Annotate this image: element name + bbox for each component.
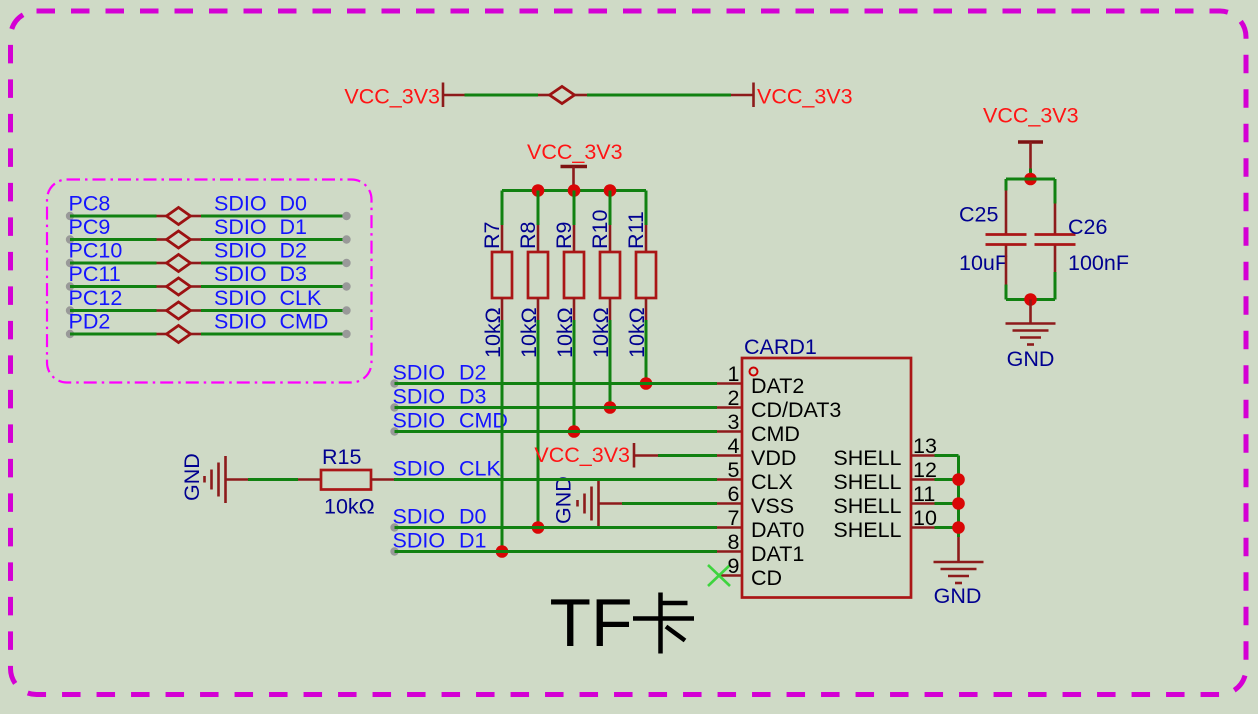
svg-text:SDIO: SDIO xyxy=(393,457,446,481)
title TF text xyxy=(550,585,633,661)
svg-text:SDIO: SDIO xyxy=(393,505,446,529)
wire C26 leg top xyxy=(1054,179,1057,234)
resistor R11 xyxy=(636,252,656,298)
svg-text:SHELL: SHELL xyxy=(833,494,901,518)
svg-text:DAT0: DAT0 xyxy=(751,518,804,542)
node PC8 label xyxy=(69,192,111,216)
svg-text:DAT1: DAT1 xyxy=(751,542,804,566)
ground GND at R15 xyxy=(205,456,249,503)
svg-text:SDIO: SDIO xyxy=(393,385,446,409)
svg-text:C25: C25 xyxy=(959,203,998,227)
svg-text:VCC_3V3: VCC_3V3 xyxy=(534,443,630,467)
node VCC_3V3 top-right label xyxy=(757,85,853,109)
ground GND caps xyxy=(1006,324,1056,345)
node SDIO D3 label xyxy=(393,385,487,409)
junction on bus at R8 xyxy=(532,184,545,197)
svg-text:D1: D1 xyxy=(459,529,486,553)
wire SDIO_D0 to pin7 xyxy=(390,523,742,531)
svg-text:CLK: CLK xyxy=(459,457,501,481)
junction R7/SDIO_D1 xyxy=(496,545,509,558)
wire C26 leg bottom xyxy=(1054,246,1057,300)
capacitor C25 xyxy=(986,235,1027,245)
pin1 marker circle xyxy=(750,368,758,376)
resistor R8 xyxy=(528,252,548,298)
inter-sheet diamond row6 xyxy=(167,326,191,343)
connector CARD1 body xyxy=(742,358,911,598)
svg-text:PC10: PC10 xyxy=(69,239,123,263)
svg-text:7: 7 xyxy=(728,506,740,530)
wire R8 bottom to SDIO_D0 xyxy=(537,298,540,528)
node SDIO CMD label xyxy=(393,409,508,433)
svg-text:D2: D2 xyxy=(280,239,307,263)
label R11 xyxy=(624,211,648,249)
wire xyxy=(443,94,550,97)
node SDIO D0 label xyxy=(214,192,307,216)
wire SDIO_D1 to pin8 xyxy=(390,547,742,555)
pin names SHELL xyxy=(833,446,901,542)
node SDIO CLK label xyxy=(214,286,322,310)
svg-text:PD2: PD2 xyxy=(69,310,111,334)
svg-text:R9: R9 xyxy=(552,222,576,249)
svg-text:VCC_3V3: VCC_3V3 xyxy=(344,85,440,109)
ground stem caps xyxy=(1029,300,1032,324)
svg-text:D3: D3 xyxy=(280,262,308,286)
value C25 10uF xyxy=(959,251,1008,275)
label GND at R15 xyxy=(180,453,204,501)
wire shell bus xyxy=(957,456,960,563)
resistor R10 xyxy=(600,252,620,298)
node PC9 label xyxy=(69,215,111,239)
wire PC10 to SDIO_D2 xyxy=(66,259,351,267)
svg-text:SDIO: SDIO xyxy=(393,409,446,433)
label C25 xyxy=(959,203,998,227)
node SDIO CMD label xyxy=(214,310,328,334)
title glyph 卡 xyxy=(633,593,694,654)
node VCC_3V3 capacitors xyxy=(983,104,1079,128)
svg-text:TF: TF xyxy=(550,585,633,661)
svg-text:PC11: PC11 xyxy=(69,262,121,286)
wire PC11 to SDIO_D3 xyxy=(66,282,351,290)
inter-sheet diamond xyxy=(550,87,575,104)
power terminal tick right xyxy=(752,83,755,108)
svg-text:R15: R15 xyxy=(322,445,361,469)
value R11 10kΩ xyxy=(625,307,649,358)
wire SDIO_CMD to pin3 xyxy=(390,427,742,435)
ground GND below shell xyxy=(934,562,984,583)
svg-text:3: 3 xyxy=(728,410,740,434)
power symbol VCC bar caps xyxy=(1018,142,1043,179)
wire GND to pin6 VSS xyxy=(622,502,742,505)
svg-text:SDIO: SDIO xyxy=(214,239,267,263)
junction on bus at R10 xyxy=(604,184,617,197)
svg-text:SHELL: SHELL xyxy=(833,518,901,542)
pin names xyxy=(751,374,841,590)
junction shell 11 xyxy=(952,497,965,510)
wire caps top rail xyxy=(1006,178,1055,181)
node SDIO D2 label xyxy=(393,361,487,385)
svg-text:1: 1 xyxy=(728,362,740,386)
svg-text:SDIO: SDIO xyxy=(214,262,267,286)
svg-text:SHELL: SHELL xyxy=(833,446,901,470)
wire R11 top xyxy=(645,191,648,253)
node SDIO D0 label xyxy=(393,505,487,529)
label GND below shell xyxy=(934,584,982,608)
pin9 CD stub xyxy=(719,574,742,577)
wire C25 leg top xyxy=(1005,179,1008,234)
svg-text:100nF: 100nF xyxy=(1068,251,1129,275)
ground GND at pin6 xyxy=(578,480,623,527)
value R8 10kΩ xyxy=(517,307,541,358)
wire R11 bottom to SDIO_D2 xyxy=(645,298,648,384)
svg-text:VSS: VSS xyxy=(751,494,794,518)
node VCC_3V3 top-left label xyxy=(344,85,440,109)
wire xyxy=(575,94,754,97)
value R7 10kΩ xyxy=(481,307,505,358)
node PC11 label xyxy=(69,262,121,286)
no-connect X on pin9 xyxy=(708,565,730,586)
wire R9 bottom to SDIO_CMD xyxy=(573,298,576,432)
svg-text:SHELL: SHELL xyxy=(833,470,901,494)
svg-text:PC12: PC12 xyxy=(69,286,123,310)
node PD2 label xyxy=(69,310,111,334)
pin numbers left xyxy=(728,362,740,578)
junction shell 12 xyxy=(952,473,965,486)
capacitor C26 xyxy=(1035,235,1076,245)
svg-text:SDIO: SDIO xyxy=(214,310,267,334)
junction caps bottom xyxy=(1024,293,1037,306)
pin12 stub xyxy=(911,478,959,481)
node VCC_3V3 above resistor bank xyxy=(527,140,623,164)
svg-text:2: 2 xyxy=(728,386,740,410)
wire PC9 to SDIO_D1 xyxy=(66,235,351,243)
inter-sheet diamond row2 xyxy=(167,231,191,248)
label R10 xyxy=(588,210,612,249)
wire R9 top xyxy=(573,191,576,253)
junction shell 10 xyxy=(952,521,965,534)
value R15 10kΩ xyxy=(324,495,375,519)
power terminal tick left xyxy=(442,83,445,108)
svg-text:SDIO: SDIO xyxy=(214,286,267,310)
junction caps top xyxy=(1024,173,1037,186)
svg-text:D0: D0 xyxy=(459,505,487,529)
wire R10 bottom to SDIO_D3 xyxy=(609,298,612,408)
node SDIO D2 label xyxy=(214,239,307,263)
resistor R7 xyxy=(492,252,512,298)
wire PD2 to SDIO_CMD xyxy=(66,330,351,338)
label R8 xyxy=(516,221,540,249)
node SDIO D1 label xyxy=(393,529,487,553)
label R15 xyxy=(322,445,361,469)
wire R8 top xyxy=(537,191,540,253)
node SDIO CLK label xyxy=(393,457,502,481)
svg-text:PC9: PC9 xyxy=(69,215,111,239)
wire R7 top xyxy=(501,191,504,253)
inter-sheet diamond row3 xyxy=(167,255,191,272)
svg-text:D2: D2 xyxy=(459,361,486,385)
label GND caps xyxy=(1007,347,1055,371)
resistor R15 xyxy=(321,470,371,490)
junction R9/SDIO_CMD xyxy=(568,425,581,438)
wire R10 top xyxy=(609,191,612,253)
node VCC_3V3 at pin4 xyxy=(534,443,630,467)
wire PC12 to SDIO_CLK xyxy=(66,306,351,314)
svg-text:6: 6 xyxy=(728,482,740,506)
wire caps bottom rail xyxy=(1006,298,1055,301)
label CARD1 xyxy=(744,335,817,359)
svg-text:CMD: CMD xyxy=(280,310,329,334)
svg-text:CARD1: CARD1 xyxy=(744,335,817,359)
node PC10 label xyxy=(69,239,123,263)
svg-text:VCC_3V3: VCC_3V3 xyxy=(757,85,853,109)
svg-text:R8: R8 xyxy=(516,221,540,249)
wire VCC bus xyxy=(502,189,646,192)
node SDIO D1 label xyxy=(214,215,307,239)
wire R15 to pin5 SDIO_CLK xyxy=(371,478,742,481)
node PC12 label xyxy=(69,286,123,310)
label GND at pin6 xyxy=(552,476,576,524)
wire SDIO_D2 to pin1 xyxy=(390,379,742,387)
svg-text:D3: D3 xyxy=(459,385,487,409)
svg-text:SDIO: SDIO xyxy=(214,215,267,239)
value R9 10kΩ xyxy=(553,307,577,358)
svg-text:SDIO: SDIO xyxy=(393,529,446,553)
inter-sheet diamond row1 xyxy=(167,208,191,225)
svg-text:R11: R11 xyxy=(624,211,648,249)
svg-text:SDIO: SDIO xyxy=(214,192,267,216)
wire SDIO_D3 to pin2 xyxy=(390,403,742,411)
svg-text:5: 5 xyxy=(728,458,740,482)
svg-text:CMD: CMD xyxy=(751,422,800,446)
port group dash-dot box xyxy=(47,180,372,383)
inter-sheet diamond row5 xyxy=(167,302,191,319)
svg-text:D1: D1 xyxy=(280,215,307,239)
svg-text:CLX: CLX xyxy=(751,470,793,494)
svg-text:PC8: PC8 xyxy=(69,192,111,216)
svg-text:SDIO: SDIO xyxy=(393,361,446,385)
label R7 xyxy=(480,222,504,249)
svg-text:CLK: CLK xyxy=(280,286,322,310)
label C26 xyxy=(1068,215,1107,239)
pin numbers right xyxy=(913,434,937,530)
node SDIO D3 label xyxy=(214,262,307,286)
label R9 xyxy=(552,222,576,249)
svg-text:10uF: 10uF xyxy=(959,251,1008,275)
svg-text:VCC_3V3: VCC_3V3 xyxy=(983,104,1079,128)
junction R8/SDIO_D0 xyxy=(532,521,545,534)
wire R7 bottom to SDIO_D1 xyxy=(501,298,504,552)
svg-text:CD: CD xyxy=(751,566,782,590)
svg-text:GND: GND xyxy=(180,453,204,501)
inter-sheet diamond row4 xyxy=(167,278,191,295)
pin10 stub xyxy=(911,526,959,529)
svg-text:GND: GND xyxy=(934,584,982,608)
svg-text:D0: D0 xyxy=(280,192,308,216)
svg-text:4: 4 xyxy=(728,434,740,458)
svg-text:C26: C26 xyxy=(1068,215,1107,239)
pin11 stub xyxy=(911,502,959,505)
svg-text:GND: GND xyxy=(552,476,576,524)
wire C25 leg bottom xyxy=(1005,246,1008,300)
pin13 stub xyxy=(911,454,959,457)
svg-text:R10: R10 xyxy=(588,210,612,249)
svg-text:DAT2: DAT2 xyxy=(751,374,804,398)
svg-text:10kΩ: 10kΩ xyxy=(324,495,375,519)
svg-text:VCC_3V3: VCC_3V3 xyxy=(527,140,623,164)
svg-text:GND: GND xyxy=(1007,347,1055,371)
junction R11/SDIO_D2 xyxy=(640,377,653,390)
wire PC8 to SDIO_D0 xyxy=(66,212,351,220)
svg-text:9: 9 xyxy=(728,554,740,578)
wire GND to R15 xyxy=(248,478,321,481)
power terminal tick pin4 xyxy=(633,443,636,468)
value C26 100nF xyxy=(1068,251,1129,275)
value R10 10kΩ xyxy=(589,307,613,358)
power symbol VCC bar xyxy=(561,167,588,191)
svg-text:CD/DAT3: CD/DAT3 xyxy=(751,398,841,422)
wire VCC to pin4 xyxy=(634,454,742,457)
svg-text:VDD: VDD xyxy=(751,446,796,470)
svg-text:8: 8 xyxy=(728,530,740,554)
junction R10/SDIO_D3 xyxy=(604,401,617,414)
junction on bus at R9 xyxy=(568,184,581,197)
resistor R9 xyxy=(564,252,584,298)
svg-text:R7: R7 xyxy=(480,222,504,249)
